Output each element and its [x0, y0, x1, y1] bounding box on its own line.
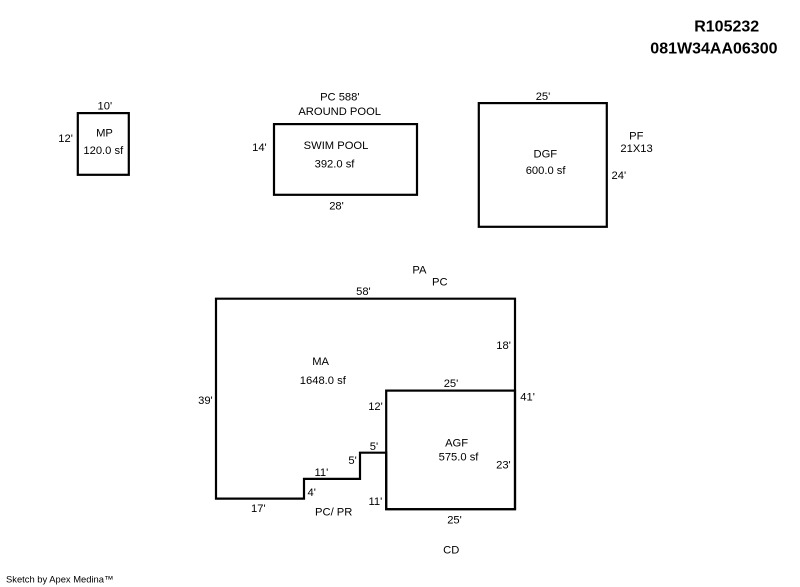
svg-text:24': 24': [612, 170, 627, 182]
svg-text:17': 17': [251, 503, 266, 515]
svg-text:12': 12': [58, 133, 73, 145]
svg-text:11': 11': [369, 496, 383, 508]
svg-text:PF: PF: [629, 130, 643, 142]
svg-text:58': 58': [356, 286, 371, 298]
MA outline polygon: [216, 299, 515, 510]
svg-text:575.0 sf: 575.0 sf: [439, 451, 480, 463]
svg-text:5': 5': [370, 441, 378, 453]
swim pool outline: [274, 124, 417, 195]
svg-text:28': 28': [329, 201, 344, 213]
svg-text:Sketch by Apex Medina™: Sketch by Apex Medina™: [6, 573, 113, 584]
svg-text:PA: PA: [412, 264, 427, 276]
svg-text:11': 11': [315, 467, 329, 479]
svg-text:R105232: R105232: [694, 18, 759, 35]
svg-text:25': 25': [444, 378, 459, 390]
svg-text:AROUND POOL: AROUND POOL: [298, 106, 381, 118]
svg-text:21X13: 21X13: [620, 143, 652, 155]
svg-text:PC: PC: [432, 277, 448, 289]
svg-text:SWIM POOL: SWIM POOL: [304, 140, 369, 152]
svg-text:MP: MP: [96, 128, 113, 140]
svg-text:MA: MA: [312, 356, 329, 368]
svg-text:5': 5': [348, 455, 356, 467]
svg-text:AGF: AGF: [445, 437, 468, 449]
svg-text:25': 25': [536, 91, 551, 103]
svg-text:PC/ PR: PC/ PR: [315, 507, 352, 519]
svg-text:CD: CD: [443, 544, 459, 556]
MP outline: [78, 113, 129, 175]
svg-text:PC 588': PC 588': [320, 92, 359, 104]
svg-text:DGF: DGF: [533, 149, 557, 161]
svg-text:23': 23': [496, 460, 511, 472]
svg-text:392.0 sf: 392.0 sf: [315, 158, 356, 170]
svg-text:081W34AA06300: 081W34AA06300: [650, 41, 777, 58]
DGF outline: [479, 103, 607, 227]
svg-text:25': 25': [447, 514, 462, 526]
AGF outline: [386, 391, 515, 510]
svg-text:10': 10': [98, 101, 113, 113]
svg-text:18': 18': [496, 340, 511, 352]
svg-text:41': 41': [520, 391, 535, 403]
svg-text:4': 4': [308, 487, 316, 499]
svg-text:39': 39': [198, 395, 213, 407]
svg-text:12': 12': [368, 401, 383, 413]
svg-text:14': 14': [252, 142, 267, 154]
svg-text:600.0 sf: 600.0 sf: [526, 165, 567, 177]
svg-text:1648.0 sf: 1648.0 sf: [300, 375, 347, 387]
svg-text:120.0 sf: 120.0 sf: [83, 145, 124, 157]
